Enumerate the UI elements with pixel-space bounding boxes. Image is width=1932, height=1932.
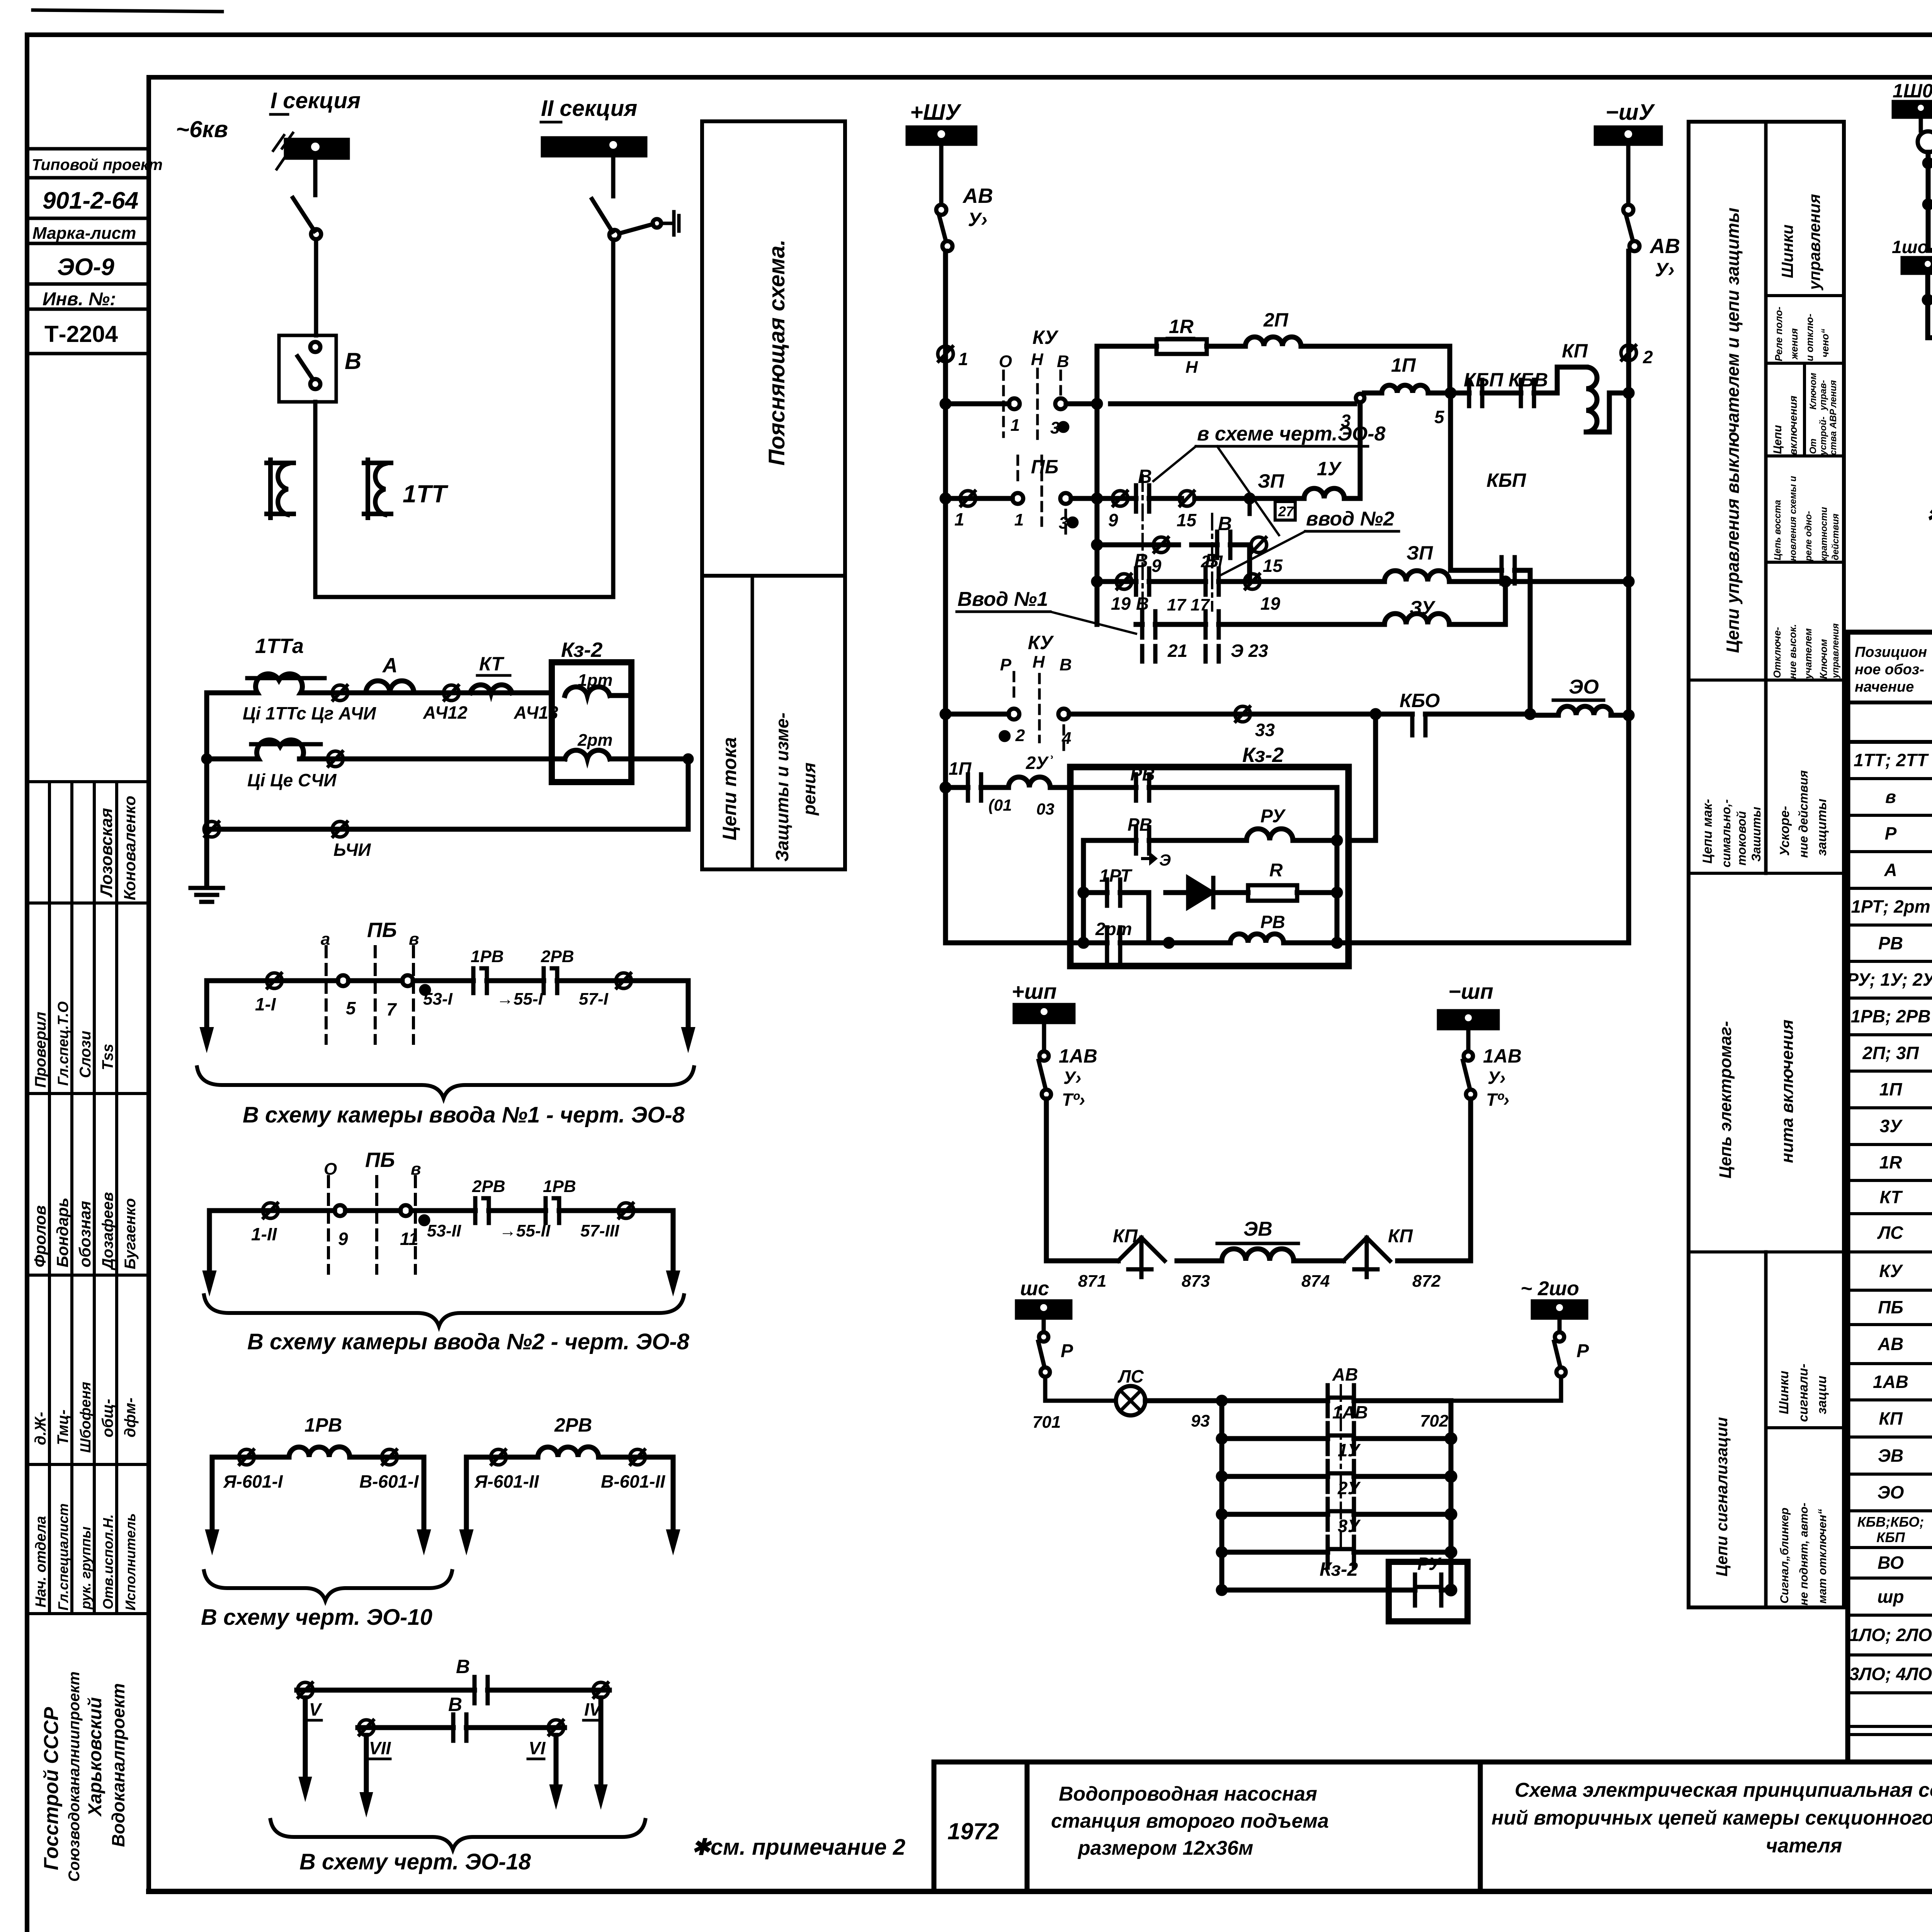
svg-text:Цепи управления выключателем: Цепи управления выключателем и цепи защи… — [1723, 207, 1743, 653]
table row 3LO 4LO — [1849, 1663, 1932, 1685]
component table outer frame — [1848, 632, 1932, 1762]
svg-text:R: R — [1269, 860, 1283, 881]
svg-text:Тº›: Тº› — [1062, 1090, 1085, 1110]
svg-text:Цепи тока: Цепи тока — [719, 737, 740, 840]
svg-text:В: В — [1060, 655, 1072, 674]
svg-text:Р: Р — [1000, 655, 1012, 674]
svg-text:→55-I: →55-I — [497, 990, 543, 1009]
svg-text:1ТТа: 1ТТа — [255, 634, 304, 658]
wire 1AV down to EV row — [1044, 1099, 1049, 1261]
svg-text:1: 1 — [958, 349, 968, 369]
svg-text:Р: Р — [1885, 823, 1897, 844]
svg-text:1РВ: 1РВ — [304, 1414, 342, 1436]
svg-text:учателем: учателем — [1802, 628, 1814, 680]
svg-text:Сигнал„блинкер: Сигнал„блинкер — [1778, 1508, 1791, 1604]
electromagnet EO coil — [1530, 713, 1629, 718]
svg-text:КТ: КТ — [1880, 1187, 1903, 1207]
contact 1AV — [1328, 1423, 1354, 1454]
table row 1TT 2TT — [1854, 750, 1932, 771]
svg-text:15: 15 — [1177, 510, 1197, 530]
svg-text:кратности: кратности — [1819, 507, 1829, 561]
svg-text:V: V — [309, 1699, 322, 1719]
contact 1RT row with diode and resistor R — [1083, 893, 1337, 943]
svg-text:+шп: +шп — [1012, 979, 1057, 1003]
key KU row2 — [942, 495, 949, 502]
svg-text:ПБ: ПБ — [1031, 456, 1058, 478]
svg-text:управления: управления — [1805, 194, 1823, 291]
svg-text:сигнали-: сигнали- — [1796, 1364, 1811, 1422]
svg-text:Ці 1ТТс Цг АЧИ: Ці 1ТТс Цг АЧИ — [243, 703, 376, 723]
wire 1shO220 down — [1925, 273, 1930, 338]
table row 1LO 2LO — [1849, 1624, 1932, 1646]
svg-text:КП: КП — [1113, 1226, 1138, 1247]
wire LS to ladder — [1145, 1398, 1222, 1403]
wire busbar1 to switch — [313, 158, 318, 195]
wire AV down left bus — [943, 251, 948, 943]
wire VO down — [1926, 152, 1931, 250]
svg-text:2РВ: 2РВ — [541, 947, 574, 966]
svg-text:КУ: КУ — [1028, 632, 1054, 653]
svg-text:2П: 2П — [1263, 309, 1289, 331]
svg-text:АВ: АВ — [962, 184, 993, 207]
svg-text:О: О — [999, 352, 1012, 371]
contact 1RV circuit1 — [473, 968, 487, 993]
wire R to lamp row — [1045, 1377, 1116, 1401]
relay coil 1RT — [565, 687, 610, 696]
resistor R inside box — [1248, 885, 1297, 901]
svg-text:03: 03 — [1036, 800, 1054, 818]
svg-text:жения: жения — [1788, 328, 1800, 360]
svg-text:в: в — [409, 930, 419, 949]
svg-text:действия: действия — [1830, 514, 1841, 560]
svg-text:1РВ: 1РВ — [543, 1177, 576, 1196]
svg-text:Цепи сигнализации: Цепи сигнализации — [1713, 1417, 1731, 1577]
svg-text:✱2. Клемму VI домаркироват: ✱2. Клемму VI домаркировать. — [1926, 503, 1932, 527]
svg-text:9: 9 — [1151, 556, 1162, 576]
svg-text:Цепь электромаг-: Цепь электромаг- — [1716, 1021, 1735, 1179]
svg-text:93: 93 — [1191, 1412, 1210, 1430]
svg-text:~ 2шо: ~ 2шо — [1520, 1277, 1579, 1300]
lamp line 5 — [1928, 335, 1932, 340]
contacts KBP KBV — [1451, 391, 1557, 396]
svg-text:Схема электрическая принципи: Схема электрическая принципиальная соеди… — [1515, 1779, 1932, 1801]
PB dashed stems circuit1 — [326, 947, 413, 1043]
svg-text:В схему черт. ЭО-10: В схему черт. ЭО-10 — [201, 1605, 432, 1630]
svg-text:новления схемы и: новления схемы и — [1788, 476, 1798, 561]
lamp line 3 — [1928, 248, 1932, 253]
busbar II section — [543, 138, 645, 155]
table row 1P — [1879, 1079, 1932, 1100]
svg-text:чателя: чателя — [1766, 1835, 1842, 1857]
svg-text:КБП КБВ: КБП КБВ — [1464, 369, 1548, 391]
svg-text:КБВ;КБО;: КБВ;КБО; — [1857, 1514, 1924, 1530]
table row 3U — [1880, 1116, 1932, 1137]
table row PB — [1878, 1297, 1932, 1318]
svg-text:ЬЧИ: ЬЧИ — [333, 840, 371, 860]
svg-text:1: 1 — [1014, 510, 1024, 529]
terminal 1 on left bus — [938, 346, 953, 362]
svg-text:ЭО: ЭО — [1878, 1482, 1904, 1502]
svg-text:−шп: −шп — [1448, 979, 1493, 1003]
svg-text:2рт: 2рт — [1095, 919, 1132, 939]
svg-text:КУ: КУ — [1032, 327, 1059, 348]
KBP second contact branch — [1451, 393, 1502, 570]
table row lines — [1848, 779, 1932, 1735]
contact 2RV circuit2 — [475, 1198, 489, 1223]
svg-text:включения: включения — [1787, 396, 1799, 455]
lamp line 1 — [1928, 161, 1932, 166]
svg-text:1-I: 1-I — [255, 994, 276, 1014]
svg-text:В-601-II: В-601-II — [601, 1471, 665, 1492]
wire 1AV right down to EV row — [1468, 1099, 1473, 1261]
svg-text:Ключом: Ключом — [1818, 639, 1829, 679]
svg-text:ления: ления — [1828, 380, 1838, 408]
svg-text:Зашиты: Зашиты — [1749, 807, 1763, 862]
svg-text:ЭВ: ЭВ — [1243, 1218, 1272, 1240]
left vertical of current circuit — [204, 693, 209, 829]
busbar I section — [286, 140, 348, 158]
svg-text:рук. группы: рук. группы — [78, 1526, 94, 1610]
vertical label column frame — [1689, 122, 1844, 1607]
right drop with arrow circuit1 — [686, 981, 691, 1028]
wire current circuit top row — [207, 690, 552, 696]
svg-text:ЭВ: ЭВ — [1878, 1446, 1903, 1466]
svg-text:19: 19 — [1111, 594, 1131, 614]
svg-text:Лозовская: Лозовская — [97, 808, 116, 898]
right vertical of current circuit — [611, 696, 688, 829]
wire KU row1 to node 3 — [1111, 401, 1355, 406]
disconnector switch II — [592, 199, 612, 232]
contact RV top row inside box — [1070, 787, 1337, 943]
svg-text:Реле поло-: Реле поло- — [1773, 307, 1784, 361]
svg-text:дфм-: дфм- — [122, 1398, 139, 1437]
table row EV — [1878, 1438, 1932, 1473]
svg-text:Т-2204: Т-2204 — [44, 321, 118, 347]
svg-text:КБП: КБП — [1486, 469, 1526, 491]
lamp line 2 — [1928, 202, 1932, 207]
svg-text:9: 9 — [338, 1229, 348, 1249]
svg-text:У›: У› — [1655, 259, 1675, 281]
PB contact circles circuit1 — [338, 975, 349, 986]
svg-text:53-II: 53-II — [427, 1221, 461, 1240]
svg-text:Кз-2: Кз-2 — [1320, 1558, 1358, 1580]
relay coil 3U — [1384, 614, 1449, 624]
svg-text:Н: Н — [1032, 653, 1045, 672]
svg-text:В-601-I: В-601-I — [359, 1471, 419, 1492]
svg-text:В схему черт. ЭО-18: В схему черт. ЭО-18 — [299, 1849, 531, 1874]
svg-text:В: В — [345, 348, 361, 374]
left bus x2839 — [1095, 346, 1100, 624]
svg-text:Ці Це СЧИ: Ці Це СЧИ — [247, 770, 337, 790]
relay coil 2RT — [565, 750, 610, 759]
table row AV — [1878, 1333, 1932, 1355]
left drop with arrow circuit2 — [207, 1211, 212, 1271]
breaker AV switch right — [1623, 205, 1633, 215]
svg-text:д.Ж-: д.Ж- — [32, 1412, 49, 1445]
title block frame — [934, 1762, 1932, 1891]
svg-text:2РВ: 2РВ — [472, 1177, 505, 1196]
brace EO-10 — [204, 1571, 452, 1600]
svg-text:РВ: РВ — [1260, 912, 1285, 932]
svg-text:3У: 3У — [1880, 1116, 1903, 1136]
disconnector switch I — [293, 198, 315, 231]
V aux contact row2 — [1111, 496, 1304, 501]
svg-text:873: 873 — [1182, 1272, 1210, 1291]
svg-text:Коноваленко: Коноваленко — [121, 796, 139, 900]
ladder rung 2U — [1222, 1512, 1451, 1517]
inner left vertical of K3-2 — [1081, 840, 1086, 943]
svg-text:токовой: токовой — [1735, 811, 1748, 866]
switch R right — [1555, 1332, 1564, 1342]
svg-text:мат отключен“: мат отключен“ — [1816, 1509, 1829, 1604]
relay coil 1P — [1364, 391, 1451, 396]
terminal A412 — [444, 685, 459, 701]
table row 1AV — [1873, 1371, 1932, 1393]
svg-text:ний вторичных цепей камеры сек: ний вторичных цепей камеры секционного в… — [1492, 1807, 1932, 1829]
relay box K3-2 small — [1389, 1562, 1468, 1621]
svg-text:1: 1 — [954, 509, 964, 529]
earthing knife contact — [619, 224, 653, 233]
svg-text:Цепь восста: Цепь восста — [1772, 500, 1783, 560]
contact RV + relay coil RU row — [1083, 838, 1376, 843]
dash-dot stem through ladder contacts — [1340, 1385, 1342, 1548]
svg-text:В схему камеры ввода №1 -: В схему камеры ввода №1 - черт. ЭО-8 — [243, 1102, 685, 1128]
winding KT — [470, 685, 512, 693]
svg-text:управления: управления — [1830, 623, 1841, 679]
svg-text:✱см. примечание 2: ✱см. примечание 2 — [692, 1835, 905, 1860]
svg-text:Цепи: Цепи — [1771, 425, 1784, 454]
svg-text:53-I: 53-I — [423, 990, 453, 1009]
svg-text:1ТТ; 2ТТ: 1ТТ; 2ТТ — [1854, 750, 1929, 770]
svg-text:15: 15 — [1263, 556, 1283, 576]
svg-text:шс: шс — [1020, 1277, 1049, 1300]
svg-text:1РТ: 1РТ — [1099, 866, 1133, 886]
busbar hatches — [273, 133, 293, 169]
svg-text:Я-601-I: Я-601-I — [223, 1471, 283, 1492]
terminal 33 — [1235, 706, 1250, 722]
svg-text:Цепи мак-: Цепи мак- — [1700, 799, 1715, 864]
wire current circuit second row — [207, 757, 565, 762]
svg-text:общ-: общ- — [99, 1399, 116, 1437]
svg-text:→55-II: →55-II — [499, 1221, 551, 1240]
wire busbar2 down — [611, 155, 616, 196]
svg-text:Э: Э — [1159, 851, 1171, 869]
wire PB circuit1 — [207, 978, 688, 983]
svg-text:Нач. отдела: Нач. отдела — [33, 1516, 49, 1607]
svg-text:КТ: КТ — [479, 653, 505, 675]
scan paper edge artifact top-left — [33, 10, 222, 12]
svg-text:ЗП: ЗП — [1406, 542, 1433, 564]
svg-text:2: 2 — [1643, 347, 1653, 367]
svg-text:33: 33 — [1255, 720, 1275, 740]
breaker V box — [279, 335, 336, 402]
svg-text:КП: КП — [1562, 340, 1588, 362]
svg-text:В: В — [1134, 550, 1148, 571]
svg-text:Фролов: Фролов — [31, 1205, 49, 1267]
svg-text:АВ: АВ — [1649, 235, 1680, 258]
svg-text:и отклю-: и отклю- — [1804, 314, 1815, 361]
svg-text:У›: У› — [968, 209, 988, 230]
svg-text:Н: Н — [1031, 350, 1044, 369]
svg-text:О: О — [324, 1160, 337, 1179]
svg-text:1РВ; 2РВ: 1РВ; 2РВ — [1850, 1006, 1930, 1026]
svg-text:размером 12х36м: размером 12х36м — [1077, 1837, 1253, 1859]
svg-text:защиты: защиты — [1815, 799, 1829, 856]
svg-text:Бугаенко: Бугаенко — [122, 1198, 139, 1269]
svg-text:57-I: 57-I — [579, 990, 609, 1009]
contact 1U — [1328, 1461, 1354, 1492]
svg-text:Водоканалпроект: Водоканалпроект — [108, 1683, 128, 1847]
electromagnet EV coil — [1222, 1249, 1294, 1261]
svg-text:устрой-: устрой- — [1818, 417, 1828, 456]
svg-text:У›: У› — [1063, 1068, 1081, 1088]
svg-text:симально,-: симально,- — [1719, 799, 1733, 867]
circuit 2RV coil — [466, 1455, 673, 1460]
contact 3U — [1328, 1537, 1354, 1568]
svg-text:1АВ: 1АВ — [1332, 1402, 1368, 1422]
svg-text:начение: начение — [1855, 679, 1914, 695]
PB dashed stems circuit2 — [328, 1177, 415, 1273]
svg-text:Исполнитель: Исполнитель — [122, 1513, 138, 1611]
wire -ShU down — [1626, 144, 1631, 205]
resistor 1R row — [1097, 346, 1450, 393]
svg-text:ства АВР: ства АВР — [1828, 408, 1838, 455]
svg-text:обозная: обозная — [76, 1201, 94, 1267]
svg-text:1П: 1П — [1879, 1079, 1903, 1099]
svg-text:11: 11 — [400, 1229, 418, 1249]
svg-text:Проверил: Проверил — [32, 1012, 49, 1088]
svg-text:1ЛО; 2ЛО: 1ЛО; 2ЛО — [1849, 1625, 1932, 1645]
table row A — [1884, 859, 1932, 881]
svg-text:VII: VII — [369, 1738, 391, 1758]
svg-text:Р: Р — [1061, 1341, 1073, 1361]
contact 2RT + coil RV bottom row — [946, 940, 1629, 946]
table row KU — [1879, 1260, 1932, 1282]
ladder right vertical — [1449, 1401, 1454, 1590]
svg-text:Защиты и изме-: Защиты и изме- — [772, 713, 792, 862]
svg-text:1: 1 — [1010, 416, 1020, 435]
diode — [1188, 878, 1212, 907]
ladder left vertical — [1219, 1401, 1225, 1590]
svg-text:2рт: 2рт — [577, 731, 612, 750]
svg-text:Ввод №1: Ввод №1 — [957, 588, 1048, 611]
relay 1P contact row to 2U coil — [942, 784, 949, 791]
svg-text:57-III: 57-III — [580, 1221, 619, 1240]
wire 2shO down — [1558, 1318, 1562, 1332]
svg-text:Харьковский: Харьковский — [85, 1697, 105, 1817]
svg-text:−шУ: −шУ — [1605, 100, 1655, 125]
PB contact circles circuit2 — [335, 1205, 345, 1216]
svg-text:В: В — [1218, 513, 1232, 534]
svg-text:КБО: КБО — [1400, 690, 1440, 711]
svg-text:От: От — [1808, 439, 1818, 454]
svg-text:901-2-64: 901-2-64 — [43, 187, 138, 214]
svg-text:Гл.спец.Т.О: Гл.спец.Т.О — [55, 1001, 71, 1086]
table row 1R — [1879, 1152, 1932, 1173]
svg-text:(01: (01 — [988, 796, 1012, 814]
svg-text:Марка-лист: Марка-лист — [32, 224, 136, 243]
svg-text:АВ: АВ — [1878, 1334, 1903, 1354]
relay box K3-2 — [552, 662, 631, 782]
wire V circuit row2 — [358, 1725, 565, 1730]
svg-text:ПБ: ПБ — [1878, 1297, 1903, 1317]
terminal right circuit2 — [618, 1203, 634, 1218]
svg-text:1У: 1У — [1317, 458, 1342, 480]
svg-text:2Уʾ: 2Уʾ — [1026, 753, 1054, 773]
svg-text:ЭО-9: ЭО-9 — [57, 254, 114, 281]
svg-text:В: В — [1138, 466, 1152, 487]
wire switch II down — [611, 240, 616, 597]
svg-text:Шбофеня: Шбофеня — [78, 1382, 94, 1453]
svg-text:4: 4 — [1061, 729, 1071, 748]
svg-text:1РВ: 1РВ — [471, 947, 504, 966]
svg-text:1шо 220: 1шо 220 — [1892, 237, 1932, 257]
svg-text:+ШУ: +ШУ — [910, 100, 962, 125]
svg-text:VI: VI — [529, 1738, 546, 1758]
svg-text:Тº›: Тº› — [1486, 1090, 1509, 1110]
brace circuit1 — [197, 1067, 694, 1098]
svg-text:1ТТ: 1ТТ — [403, 480, 449, 508]
svg-text:не поднят, авто-: не поднят, авто- — [1798, 1503, 1810, 1605]
ladder rung 1U — [1222, 1474, 1451, 1479]
svg-text:АЧ12: АЧ12 — [423, 702, 468, 723]
contact V row2 — [453, 1714, 466, 1741]
ladder rung 3U — [1222, 1550, 1451, 1555]
breaker AV switch — [936, 205, 946, 215]
table row 2P 3P — [1862, 1043, 1932, 1064]
svg-text:Э 23: Э 23 — [1231, 641, 1268, 661]
V aux contact row4 with 3P coil — [1097, 579, 1629, 584]
svg-text:Союзводоканалниипроект: Союзводоканалниипроект — [66, 1672, 83, 1882]
svg-text:871: 871 — [1078, 1272, 1106, 1291]
switch R left — [1039, 1332, 1048, 1342]
contactor coil KP vertical — [1557, 367, 1629, 432]
svg-text:РВ: РВ — [1878, 933, 1903, 953]
svg-text:РУ: РУ — [1260, 806, 1286, 827]
svg-text:1рт: 1рт — [578, 671, 612, 690]
svg-text:КУ: КУ — [1879, 1261, 1903, 1281]
svg-text:ввод №2: ввод №2 — [1306, 508, 1394, 530]
svg-text:1-II: 1-II — [251, 1224, 277, 1244]
svg-text:2РВ: 2РВ — [554, 1414, 592, 1436]
table header row — [1848, 701, 1932, 704]
table row KBV KBO KBP — [1857, 1511, 1932, 1546]
svg-text:ное обоз-: ное обоз- — [1855, 662, 1924, 678]
svg-text:1R: 1R — [1169, 316, 1194, 337]
svg-text:Шинки: Шинки — [1778, 224, 1796, 278]
CT 1TTa on top row — [250, 674, 307, 693]
svg-text:ние действия: ние действия — [1796, 770, 1810, 858]
drawing inner frame top line — [149, 75, 1932, 80]
svg-text:702: 702 — [1420, 1412, 1449, 1430]
drawing inner frame left line — [146, 77, 151, 1891]
svg-text:Отв.испол.Н.: Отв.испол.Н. — [100, 1514, 116, 1609]
svg-text:Бондарь: Бондарь — [53, 1197, 71, 1267]
svg-text:Отключе-: Отключе- — [1771, 627, 1783, 678]
svg-text:А: А — [382, 654, 398, 677]
svg-text:Госстрой СССР: Госстрой СССР — [40, 1707, 63, 1870]
table row LS — [1877, 1215, 1932, 1250]
table row KT — [1880, 1187, 1932, 1208]
svg-text:1972: 1972 — [947, 1818, 999, 1844]
svg-text:чено“: чено“ — [1819, 329, 1831, 357]
box Poyasnyayushchaya skhema — [702, 121, 845, 576]
terminal 1-II — [263, 1203, 278, 1218]
wire V box to CT — [313, 402, 318, 597]
svg-text:1АВ: 1АВ — [1059, 1045, 1097, 1067]
svg-text:2П; 3П: 2П; 3П — [1862, 1043, 1919, 1063]
svg-text:ЛС: ЛС — [1117, 1366, 1144, 1386]
